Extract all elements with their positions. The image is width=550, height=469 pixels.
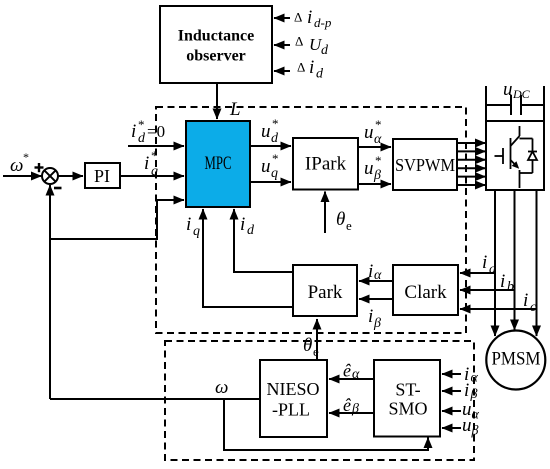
svg-text:i: i (144, 153, 149, 174)
block Clark (393, 265, 458, 315)
label i_d*=0 (131, 117, 165, 146)
dashed box: current controller subsystem (156, 107, 466, 333)
svg-text:i: i (309, 57, 314, 78)
label u_beta* (364, 153, 382, 183)
wire PI to MPC (i_q*) (120, 175, 184, 177)
svg-text:β: β (471, 424, 479, 439)
svg-text:u: u (261, 156, 271, 177)
svg-text:*: * (23, 150, 29, 164)
wire omega* input (3, 175, 42, 177)
wire DC rail right (543, 86, 545, 121)
block inverter (486, 121, 544, 190)
label i_c (523, 290, 537, 315)
svg-text:observer: observer (186, 48, 246, 65)
label theta_e (Park) (303, 335, 319, 359)
label i_beta (368, 306, 381, 331)
wire u_beta into ST-SMO (442, 427, 461, 429)
block SVPWM (393, 139, 457, 190)
block NIESO-PLL (260, 360, 327, 437)
label i_d (240, 214, 255, 238)
wire i_beta into ST-SMO (442, 390, 461, 392)
svg-text:ê: ê (343, 395, 351, 415)
wire i_b tap to Clark (460, 289, 515, 291)
svg-text:u: u (462, 415, 472, 436)
svg-text:i: i (500, 271, 505, 292)
label theta_e (IPark) (336, 209, 352, 233)
label minus (54, 187, 62, 190)
label i_alpha (ST-SMO input) (464, 364, 479, 386)
svg-text:i: i (131, 121, 136, 142)
svg-text:IPark: IPark (305, 154, 347, 175)
wire u_d* MPC to IPark (250, 145, 291, 147)
label i_q* (144, 148, 158, 179)
wire u_alpha* IPark to SVPWM (358, 146, 391, 148)
wire u_alpha into ST-SMO (442, 410, 461, 412)
diode D1 (freewheel) (520, 139, 538, 174)
svg-text:ω: ω (10, 155, 23, 176)
svg-text:*: * (151, 148, 158, 163)
svg-text:ST-: ST- (395, 380, 420, 400)
svg-text:q: q (193, 224, 200, 239)
svg-text:PMSM: PMSM (492, 349, 541, 370)
svg-text:c: c (530, 300, 537, 315)
wire i_q feedback Park to MPC (203, 209, 293, 307)
svg-text:Δ: Δ (295, 34, 303, 49)
wire junction to PI (58, 175, 83, 177)
label u_d* (261, 116, 279, 146)
wire L observer to MPC (216, 83, 218, 119)
svg-text:NIESO: NIESO (267, 379, 320, 399)
svg-text:α: α (374, 132, 382, 147)
wire speed feedback (vertical from junction) (49, 185, 51, 399)
svg-text:θ: θ (336, 209, 345, 230)
wire delta i_d into observer (274, 70, 290, 72)
svg-text:α: α (374, 268, 382, 283)
svg-text:Δ: Δ (297, 60, 305, 75)
wire i_d*=0 into MPC (128, 145, 184, 147)
label u_q* (261, 151, 279, 181)
svg-text:Park: Park (308, 282, 343, 303)
svg-text:SVPWM: SVPWM (395, 155, 455, 175)
svg-text:MPC: MPC (205, 153, 232, 174)
block MPC (186, 121, 250, 207)
svg-text:-PLL: -PLL (272, 400, 310, 420)
wire u_q* MPC to IPark (250, 181, 291, 183)
block PI (85, 163, 120, 188)
svg-text:e: e (313, 344, 319, 359)
svg-text:e: e (346, 218, 352, 233)
wire i_a tap to Clark (460, 272, 495, 274)
svg-text:*: * (375, 117, 382, 132)
svg-text:i: i (368, 261, 373, 282)
svg-text:d: d (316, 67, 324, 82)
transistor Q1 (IGBT) (495, 126, 533, 188)
svg-text:*: * (375, 153, 382, 168)
svg-text:ê: ê (343, 361, 351, 381)
block IPark (293, 138, 358, 190)
svg-text:PI: PI (94, 166, 110, 186)
wire phase b inverter to PMSM (514, 190, 516, 330)
svg-text:*: * (272, 151, 279, 166)
svg-text:q: q (151, 164, 158, 179)
svg-text:Δ: Δ (294, 10, 302, 25)
svg-text:d-p: d-p (314, 15, 332, 30)
label delta U_d (295, 34, 329, 59)
wire u_beta* IPark to SVPWM (358, 183, 391, 185)
label i_q (186, 214, 200, 239)
svg-text:u: u (364, 158, 374, 179)
svg-text:u: u (364, 122, 374, 143)
svg-text:β: β (351, 402, 359, 417)
svg-text:i: i (240, 214, 245, 235)
block Park (293, 265, 357, 316)
wire omega branch to MPC third input (50, 200, 184, 239)
label u_beta (ST-SMO input) (462, 415, 479, 439)
wires SVPWM to inverter (6 gate signals) (457, 143, 486, 185)
wire i_beta Clark to Park (359, 298, 393, 300)
wire theta_e into IPark (324, 192, 326, 234)
svg-text:i: i (186, 214, 191, 235)
svg-text:L: L (229, 99, 241, 120)
label delta i_d-p (294, 7, 332, 30)
wire phase c inverter to PMSM (536, 190, 538, 336)
label i_beta (ST-SMO input) (464, 380, 478, 402)
dashed box: observer subsystem (165, 341, 474, 460)
svg-text:i: i (482, 252, 487, 273)
motor PMSM (486, 331, 545, 390)
wire i_alpha into ST-SMO (442, 373, 461, 375)
wire delta i_d-p into observer (274, 17, 290, 19)
label i_alpha (368, 261, 382, 283)
svg-text:α: α (471, 371, 479, 386)
svg-text:SMO: SMO (388, 399, 427, 419)
svg-text:a: a (489, 262, 496, 277)
svg-text:u: u (261, 121, 271, 142)
label i_b (500, 271, 514, 295)
wire omega to ST-SMO bottom (224, 399, 428, 450)
capacitor C1 (DC link) (486, 95, 544, 115)
svg-text:d: d (271, 131, 279, 146)
label plus (35, 163, 44, 172)
block ST-SMO (374, 360, 440, 437)
svg-text:d: d (138, 131, 146, 146)
wire omega from NIESO-PLL (50, 398, 260, 400)
svg-text:*: * (272, 116, 279, 131)
label e_alpha hat (343, 361, 360, 383)
svg-text:α: α (472, 408, 480, 423)
label u_alpha* (364, 117, 382, 147)
wire i_alpha Clark to Park (359, 280, 393, 282)
label e_beta hat (343, 395, 359, 417)
label u_DC (503, 79, 531, 101)
svg-text:b: b (507, 280, 514, 295)
wire e_beta ST-SMO to NIESO-PLL (329, 412, 374, 414)
summing junction S1 (42, 168, 58, 184)
wire e_alpha ST-SMO to NIESO-PLL (329, 378, 374, 380)
svg-text:β: β (373, 316, 381, 331)
label delta i_d (297, 57, 324, 82)
svg-text:ω: ω (215, 377, 228, 398)
svg-text:*: * (138, 117, 145, 132)
wire DC rail left (485, 86, 487, 121)
label omega* (10, 150, 29, 176)
svg-text:=0: =0 (147, 122, 165, 141)
svg-text:Clark: Clark (404, 282, 447, 303)
wire i_d feedback Park to MPC (234, 209, 293, 272)
svg-text:i: i (368, 306, 373, 327)
svg-text:α: α (352, 367, 360, 382)
block U1 Inductance observer (160, 6, 272, 83)
label u_alpha (ST-SMO input) (462, 399, 480, 423)
svg-text:q: q (271, 166, 278, 181)
svg-text:i: i (307, 7, 312, 28)
wire i_c tap to Clark (460, 308, 537, 310)
svg-text:i: i (523, 290, 528, 311)
svg-text:d: d (247, 223, 255, 238)
wire phase a inverter to PMSM (494, 190, 496, 336)
svg-text:θ: θ (303, 335, 312, 356)
svg-text:Inductance: Inductance (178, 28, 254, 45)
svg-text:d: d (321, 43, 329, 58)
label i_a (482, 252, 496, 277)
svg-text:β: β (373, 168, 381, 183)
svg-text:i: i (464, 380, 469, 401)
wire theta_e NIESO-PLL to Park (316, 319, 318, 360)
wire delta U_d into observer (274, 44, 290, 46)
